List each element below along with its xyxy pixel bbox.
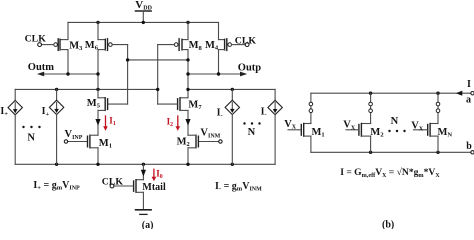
- node CLK tail terminal: [110, 184, 114, 188]
- svg-text:Outm: Outm: [28, 62, 55, 73]
- VDD supply: [135, 11, 151, 22]
- wire Outp output: [188, 73, 244, 75]
- wire b-circuit top rail node a: [311, 92, 471, 94]
- node black arrow I1 wire: [95, 119, 100, 126]
- transistor M7: [158, 98, 188, 135]
- svg-text:I-: I-: [261, 106, 267, 118]
- wire Outm node rail left: [15, 88, 158, 90]
- wire common source rail: [15, 163, 275, 165]
- node dots N left: [22, 126, 40, 128]
- wire Outm output: [41, 73, 99, 75]
- svg-text:M2: M2: [370, 127, 383, 139]
- svg-text:M1: M1: [312, 127, 325, 139]
- transistor M6: [98, 22, 112, 89]
- wire top rail VDD: [68, 21, 219, 23]
- svg-text:M2: M2: [177, 137, 190, 149]
- transistor M3: [54, 22, 68, 74]
- svg-text:VINP: VINP: [65, 129, 83, 141]
- current source I- right inner: [225, 89, 239, 164]
- wire M1b drain branch with switch contacts: [309, 93, 313, 123]
- svg-text:Mtail: Mtail: [142, 182, 166, 193]
- svg-text:I+ = gmVINP: I+ = gmVINP: [33, 180, 80, 192]
- transistor Mtail: [114, 164, 143, 208]
- svg-text:I: I: [467, 79, 471, 90]
- node Outp junction dots: [186, 72, 220, 75]
- wire M6 gate cross-couple to node Outp: [112, 45, 127, 105]
- node CLK left terminal: [38, 43, 42, 47]
- svg-text:N: N: [27, 132, 35, 143]
- node terminal b: [471, 151, 474, 154]
- node black arrow I2 wire: [185, 119, 190, 126]
- node Outm arrow: [37, 72, 44, 77]
- svg-text:CLK: CLK: [102, 176, 124, 187]
- svg-text:VDD: VDD: [135, 0, 152, 12]
- current source I+ left inner: [49, 89, 63, 164]
- node source rail junction dots: [55, 163, 234, 166]
- node rail junction dots: [55, 88, 234, 91]
- wire M4 gate to CLK right: [232, 44, 246, 46]
- svg-text:VX: VX: [343, 120, 356, 132]
- transistor M1: [68, 135, 98, 164]
- svg-text:b: b: [466, 141, 472, 152]
- red arrow I0: [152, 169, 157, 181]
- svg-text:N: N: [248, 127, 256, 138]
- wire Outp node rail right: [188, 88, 275, 90]
- transistor M2: [188, 135, 219, 164]
- wire MNb drain branch with switch contacts: [436, 93, 440, 123]
- wire M2b drain branch with switch contacts: [369, 93, 373, 123]
- node dots N right: [243, 122, 260, 124]
- svg-text:M6: M6: [85, 40, 99, 52]
- node top rail junction dots: [369, 92, 440, 95]
- svg-text:M8: M8: [189, 40, 203, 52]
- svg-text:VX: VX: [284, 119, 297, 131]
- svg-text:VINM: VINM: [200, 128, 220, 140]
- svg-text:a: a: [466, 95, 471, 106]
- svg-text:M1: M1: [99, 138, 112, 150]
- svg-text:N: N: [391, 116, 399, 127]
- transistor M5: [98, 89, 128, 135]
- node CLK right terminal: [245, 43, 249, 47]
- svg-text:MN: MN: [438, 127, 453, 139]
- wire cross line Outp (gates of M5 M6 to drain of M8): [128, 59, 188, 61]
- svg-text:Outp: Outp: [238, 62, 262, 73]
- svg-text:M5: M5: [87, 98, 101, 110]
- svg-text:I1: I1: [109, 116, 116, 127]
- wire M8 gate cross-couple to node Outm: [158, 45, 175, 105]
- ground: [136, 210, 152, 215]
- svg-text:(a): (a): [142, 220, 154, 229]
- node bottom rail junction dots: [369, 151, 440, 154]
- red arrow I2: [176, 116, 181, 131]
- wire CLK left to M3 gate: [42, 44, 54, 46]
- svg-text:I = Gm,effVX = √N*gm*VX: I = Gm,effVX = √N*gm*VX: [340, 167, 440, 179]
- svg-text:VX: VX: [411, 121, 424, 133]
- node current I arrow: [456, 91, 463, 96]
- svg-text:I- = gmVINM: I- = gmVINM: [215, 181, 262, 193]
- current source I- right outer: [268, 89, 282, 164]
- svg-text:M3: M3: [69, 40, 83, 52]
- node Outm junction dots: [66, 72, 99, 75]
- node Outp arrow: [240, 72, 247, 77]
- svg-text:I2: I2: [167, 116, 174, 127]
- svg-text:(b): (b): [382, 219, 394, 229]
- transistor M4: [219, 22, 232, 74]
- svg-text:I+: I+: [42, 106, 50, 118]
- svg-text:M4: M4: [205, 40, 219, 52]
- transistor M2b: [346, 124, 371, 153]
- current source I+ left outer: [8, 89, 22, 164]
- red arrow I1: [103, 116, 108, 131]
- transistor M8: [174, 22, 188, 97]
- svg-text:CLK: CLK: [235, 36, 257, 47]
- node VDD junction dots: [96, 21, 189, 24]
- node terminal a: [471, 92, 474, 95]
- svg-text:I-: I-: [217, 108, 223, 120]
- node dots N b-circuit: [388, 130, 405, 132]
- node black arrow tail wire: [141, 170, 146, 177]
- svg-text:CLK: CLK: [25, 34, 47, 45]
- node VINP terminal: [64, 140, 67, 143]
- node VINM terminal: [219, 140, 222, 143]
- svg-text:I0: I0: [156, 169, 163, 180]
- node cross line junctions: [126, 58, 190, 61]
- transistor MNb: [414, 124, 439, 153]
- svg-text:M7: M7: [188, 100, 202, 112]
- transistor M1b: [288, 124, 311, 153]
- svg-text:I+: I+: [0, 106, 8, 118]
- wire b-circuit bottom rail node b: [311, 151, 471, 153]
